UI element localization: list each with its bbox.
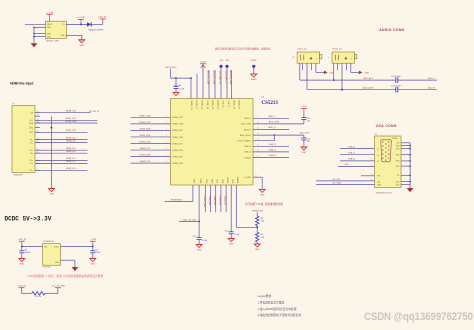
svg-text:SCL: SCL: [216, 180, 218, 184]
connector P1 HDMI-19P: [12, 103, 35, 176]
svg-text:AVDD_18: AVDD_18: [238, 101, 241, 109]
svg-text:VDD: VDD: [205, 179, 207, 184]
ground U3: [72, 267, 79, 271]
wire +5V from J1 to D1: [66, 20, 87, 26]
svg-text:16: 16: [257, 156, 259, 158]
svg-text:DVDD_C1: DVDD_C1: [195, 101, 197, 110]
wire audio right channel AUD_AOR: [307, 63, 396, 90]
svg-text:XTAL: XTAL: [199, 179, 202, 184]
svg-text:AVDD_18: AVDD_18: [232, 101, 235, 109]
svg-text:104: 104: [307, 141, 311, 143]
svg-text:HDMI_SDA: HDMI_SDA: [66, 120, 77, 123]
svg-text:HDMI_D1P: HDMI_D1P: [140, 148, 151, 150]
port +1V8 pin7: [225, 60, 230, 98]
svg-text:7: 7: [166, 155, 167, 157]
wire U2 bottom pin net VGA_VS: [224, 185, 227, 212]
net label HDMI_D1P wire to U2 pin: [131, 148, 171, 150]
svg-text:HDMI_CK-: HDMI_CK-: [66, 140, 76, 142]
svg-text:SOT23-3: SOT23-3: [43, 267, 52, 269]
svg-text:P2: P2: [293, 57, 295, 59]
svg-text:I2C_SDA: I2C_SDA: [332, 182, 341, 185]
svg-text:3: 3: [166, 129, 167, 131]
power flag +5_USB on J1 shield: [46, 13, 54, 22]
power flag +5V_OP_USB jumper: [51, 285, 65, 293]
svg-text:VOUT: VOUT: [54, 247, 60, 249]
power flag +5V0_IN: [98, 16, 107, 19]
svg-text:VGA_G: VGA_G: [268, 149, 276, 152]
wire U2 VGA_R net label: [253, 143, 289, 146]
svg-text:HDMI_SCL: HDMI_SCL: [66, 118, 77, 120]
svg-text:AUD_R: AUD_R: [428, 86, 436, 89]
wire U2 VGA_B net label: [253, 154, 289, 157]
svg-text:AUD_MCLK: AUD_MCLK: [240, 134, 252, 137]
svg-text:VGA_G: VGA_G: [244, 151, 251, 154]
svg-text:15: 15: [371, 179, 373, 181]
svg-text:HDMI line input: HDMI line input: [10, 82, 34, 86]
capacitor C8 100nF input: [19, 247, 31, 259]
svg-text:VGA_B: VGA_B: [244, 156, 251, 159]
svg-text:HDMI_CKP: HDMI_CKP: [173, 117, 184, 119]
svg-text:GND: GND: [47, 36, 52, 38]
svg-text:VGA_R: VGA_R: [244, 145, 251, 148]
svg-text:SENSE: SENSE: [236, 177, 238, 184]
svg-text:AUDIO CONN: AUDIO CONN: [379, 28, 404, 32]
svg-text:C24 100uF: C24 100uF: [391, 76, 402, 78]
svg-text:AGND: AGND: [251, 78, 257, 81]
net label HDMI_CK+: [36, 137, 88, 139]
wire power rail above U2: [171, 77, 192, 79]
wire U2 bottom pin net VGA_HS: [218, 185, 221, 212]
svg-text:5: 5: [351, 58, 352, 60]
wire D1 cathode to +5V0_IN: [91, 19, 103, 25]
resistor R4 75K: [256, 232, 265, 244]
net label HDMI_D0+: [36, 148, 88, 150]
svg-text:GND: GND: [80, 45, 85, 47]
label DAC_VDD: [300, 131, 310, 134]
ground arrow P2: [324, 71, 335, 75]
svg-text:GND: GND: [302, 152, 307, 154]
ground C20: [301, 147, 307, 154]
svg-text:HDMI_CK+: HDMI_CK+: [66, 137, 77, 139]
svg-text:V18_CAP_C6: V18_CAP_C6: [219, 71, 222, 85]
svg-text:GND: GND: [91, 264, 96, 266]
wire U3 VOUT to +3V3: [61, 246, 94, 248]
svg-text:HDMI_D2M: HDMI_D2M: [140, 155, 151, 157]
svg-text:+5_USB: +5_USB: [77, 17, 85, 19]
wire U2 pin12 to decoupling: [253, 133, 275, 136]
capacitor C9 22uF output: [90, 247, 101, 259]
svg-text:CS5213: CS5213: [262, 101, 279, 106]
capacitor C24 100uF audio L: [391, 76, 402, 83]
ground arrow P3: [359, 71, 370, 75]
svg-text:3.输出线控制阻抗,不要跨分割区走线.: 3.输出线控制阻抗,不要跨分割区走线.: [258, 313, 302, 317]
svg-text:C25 100uF: C25 100uF: [391, 85, 402, 87]
svg-text:OCLK_SEL: OCLK_SEL: [203, 196, 205, 208]
diode D1 SS8050/1N5819: [87, 22, 105, 31]
svg-text:HDMI_CKM: HDMI_CKM: [173, 124, 184, 126]
svg-text:V18_C7: V18_C7: [227, 101, 229, 108]
power flag VCAP pin3: [200, 61, 206, 99]
svg-text:HDMI_D2P: HDMI_D2P: [173, 156, 184, 158]
wire U2 bottom pin net USB_DM: [208, 185, 211, 212]
svg-text:CSDN @qq13699762750: CSDN @qq13699762750: [364, 311, 473, 323]
wire U2 top pin2: [196, 74, 198, 99]
svg-text:13: 13: [257, 139, 259, 141]
ground C22: [196, 245, 202, 252]
svg-text:AVDD_C4: AVDD_C4: [211, 101, 214, 110]
ground P_GND: [259, 189, 265, 196]
svg-text:22uF: 22uF: [96, 252, 101, 254]
net label HDMI_D0P wire to U2 pin: [131, 135, 171, 137]
svg-text:+5V0: +5V0: [344, 164, 350, 166]
svg-text:6: 6: [166, 148, 167, 150]
svg-text:HDMI_D2P: HDMI_D2P: [140, 161, 151, 163]
wire P2 to ground arrow: [316, 63, 324, 72]
power flag +5V0_IN at U3: [18, 239, 27, 246]
wire tie to C20: [274, 135, 304, 138]
svg-text:+5V0_IN: +5V0_IN: [91, 111, 99, 113]
wire P4 pin 12 stub: [361, 174, 375, 176]
svg-text:P1: P1: [13, 103, 15, 105]
capacitor C23 4.7uF: [225, 230, 240, 238]
ground at D1 circuit: [79, 40, 85, 47]
svg-text:VGA-HDB15-F-3.08: VGA-HDB15-F-3.08: [376, 192, 392, 195]
svg-text:15: 15: [37, 126, 39, 128]
wire U2 AUD_L net label: [253, 115, 289, 118]
wire U2 VGA_G net label: [253, 149, 289, 152]
connector P2 phone jack left: [293, 47, 322, 63]
svg-text:+3V3: +3V3: [301, 106, 307, 108]
svg-text:8: 8: [166, 161, 167, 163]
net label HDMI_D1M wire to U2 pin: [131, 142, 171, 144]
net label HDMI_D0M wire to U2 pin: [131, 128, 171, 130]
svg-text:=: =: [328, 57, 330, 59]
svg-text:RESERVED: RESERVED: [171, 200, 183, 202]
svg-text:18: 18: [37, 115, 39, 117]
svg-text:VGA_VS: VGA_VS: [224, 196, 227, 205]
svg-text:SENSE_FB: SENSE_FB: [252, 211, 263, 213]
svg-text:3: 3: [371, 159, 372, 161]
svg-text:AUD_R: AUD_R: [244, 128, 251, 131]
svg-text:C22: C22: [193, 236, 198, 238]
svg-text:12: 12: [257, 133, 259, 135]
svg-text:HDMI-19P: HDMI-19P: [14, 175, 24, 177]
svg-text:TODO_VSENC: TODO_VSENC: [237, 141, 251, 143]
svg-text:HDMI_D1-: HDMI_D1-: [66, 161, 76, 163]
wire U2 bottom pin net OCLK_SEL: [203, 185, 206, 212]
svg-text:AUD_AOR: AUD_AOR: [363, 86, 374, 89]
capacitor C16 0.1uF above U2: [174, 78, 185, 92]
svg-text:LDO选型要求: 1. 耐压、耐流; 2.注意封装散热功率满: LDO选型要求: 1. 耐压、耐流; 2.注意封装散热功率满足设计要求.: [28, 274, 105, 278]
wire U2 AUD_R net label: [253, 126, 289, 129]
wire I2C_SDA into P4: [316, 182, 375, 185]
svg-text:P4: P4: [375, 134, 377, 136]
svg-text:4.7uF: 4.7uF: [234, 234, 240, 236]
svg-text:R2 0R: R2 0R: [36, 296, 42, 298]
svg-text:GND: GND: [29, 127, 34, 129]
svg-text:USB_DP: USB_DP: [213, 196, 215, 205]
svg-text:11: 11: [257, 128, 259, 130]
wire P4 ground bus: [401, 143, 411, 188]
svg-text:+5V0_IN: +5V0_IN: [17, 285, 26, 287]
ground AGND tie: [251, 74, 257, 81]
power flag +5V0_IN jumper: [17, 285, 26, 293]
svg-text:HPD: HPD: [210, 179, 212, 184]
svg-text:AVDD_C5: AVDD_C5: [216, 101, 219, 110]
resistor R2 0R jumper: [22, 292, 58, 299]
svg-text:AVDD18_CAP: AVDD18_CAP: [229, 71, 232, 86]
svg-text:USB_DM: USB_DM: [208, 196, 210, 205]
svg-text:VGA CONN: VGA CONN: [376, 124, 397, 128]
net label HDMI_CKM wire to U2 pin: [131, 115, 171, 117]
port +1V8 pin6: [219, 60, 224, 98]
svg-text:VGA_B: VGA_B: [348, 158, 356, 161]
svg-text:HDB15: HDB15: [392, 138, 398, 140]
svg-text:0.1uF: 0.1uF: [202, 240, 208, 242]
wire HDMI pin stubs: [35, 111, 40, 171]
svg-text:U2: U2: [262, 97, 265, 99]
svg-text:AUD_GND: AUD_GND: [269, 121, 280, 124]
svg-text:HDMI_D0P: HDMI_D0P: [140, 135, 151, 137]
net label HDMI_D1+: [36, 158, 88, 160]
capacitor C25 100uF audio R: [391, 85, 402, 92]
svg-text:VGA_B: VGA_B: [269, 154, 277, 157]
svg-text:D1-: D1-: [30, 163, 33, 165]
wire U2 P_GND pin: [253, 175, 262, 189]
svg-text:V18_CAP_C7: V18_CAP_C7: [225, 71, 228, 85]
ground C8: [19, 259, 25, 266]
capacitor C20 104: [301, 138, 311, 147]
wire P3 sleeve stubs: [337, 63, 346, 70]
wire U2 XTAL pin: [198, 185, 200, 238]
svg-text:HDMI_D0M: HDMI_D0M: [173, 137, 184, 139]
svg-text:HDMI_D0-: HDMI_D0-: [66, 151, 76, 153]
port AGND tie: [251, 59, 257, 74]
svg-text:5V0: 5V0: [396, 143, 399, 145]
net label SENSE_FB: [252, 211, 263, 216]
svg-text:104: 104: [307, 121, 311, 123]
power flag +5V0 into P4: [338, 164, 375, 167]
svg-text:75K: 75K: [261, 221, 265, 223]
wire P2 sleeve stubs: [303, 63, 312, 70]
connector J1 MICRO_USB: [45, 21, 66, 42]
wire HDMI shield ground bus: [51, 116, 53, 188]
net label HDMI_D2P wire to U2 pin: [131, 161, 171, 163]
wire U2 top pin4 net AVDD33: [207, 70, 210, 99]
svg-text:AUD_L: AUD_L: [269, 115, 277, 118]
svg-text:XTAL_IN_24M: XTAL_IN_24M: [182, 218, 196, 221]
svg-text:2: 2: [166, 122, 167, 124]
wire U3 GND pin: [61, 260, 75, 267]
svg-text:2: 2: [371, 153, 372, 155]
wire U2 SENSE pin to divider: [236, 185, 257, 227]
svg-text:VDDIO_33: VDDIO_33: [190, 101, 192, 110]
svg-text:Phone out: Phone out: [298, 47, 308, 50]
connector P3 phone jack right: [328, 47, 357, 63]
svg-text:VCAP: VCAP: [200, 61, 206, 64]
svg-text:分压电阻7.5K段, 按需求调整比例: 分压电阻7.5K段, 按需求调整比例: [245, 202, 283, 206]
label U2 designator CS5213: [262, 97, 279, 106]
svg-text:HDMI_D0+: HDMI_D0+: [66, 148, 77, 150]
svg-text:HDMI_D1M: HDMI_D1M: [140, 142, 151, 144]
net label HDMI_SCL: [36, 118, 98, 120]
svg-text:HDMI_D2+: HDMI_D2+: [66, 168, 77, 170]
svg-text:SCL: SCL: [377, 181, 381, 183]
svg-text:GND: GND: [47, 27, 52, 29]
net label HDMI_SDA: [36, 120, 98, 123]
svg-text:5: 5: [166, 142, 167, 144]
capacitor C22 0.1uF at XTAL: [193, 236, 208, 245]
svg-text:AGND: AGND: [251, 59, 257, 62]
svg-text:MICRO_USB: MICRO_USB: [46, 41, 59, 43]
net label HDMI_CK-: [36, 140, 88, 142]
net label HDMI_5V0: [36, 110, 90, 112]
wire P3 to ground arrow: [351, 63, 359, 72]
svg-text:GND: GND: [49, 194, 54, 196]
power flag +3V3_D above U2: [165, 67, 177, 78]
svg-text:5: 5: [316, 58, 317, 60]
svg-text:22: 22: [255, 175, 257, 177]
wire U2 top pin1: [190, 78, 192, 98]
svg-text:AUD_L: AUD_L: [428, 77, 436, 80]
ground C16: [173, 93, 179, 96]
svg-text:GND: GND: [260, 195, 265, 197]
wire audio left channel AUD_AOL: [300, 63, 396, 81]
svg-text:+5V_OP_USB: +5V_OP_USB: [51, 285, 65, 287]
svg-text:Layout要求:: Layout要求:: [258, 294, 272, 298]
svg-text:GND: GND: [55, 262, 60, 264]
svg-text:GND: GND: [20, 264, 25, 266]
resistor R3 75K: [256, 216, 265, 232]
net label HDMI_D1-: [36, 161, 88, 163]
svg-text:GND: GND: [61, 35, 66, 37]
svg-text:VDD: VDD: [231, 179, 233, 184]
svg-text:R4: R4: [261, 234, 264, 236]
power flag +3V3 output: [90, 239, 97, 246]
wire VGA_G into P4: [340, 151, 375, 155]
svg-text:AUD_AOL: AUD_AOL: [363, 77, 374, 80]
net label HDMI_D2+: [36, 168, 88, 170]
ground divider: [254, 244, 260, 251]
wire to net label AUD_R: [398, 86, 437, 89]
svg-text:GND: GND: [229, 244, 234, 246]
svg-text:AVDD33_CAP: AVDD33_CAP: [213, 71, 216, 86]
wire I2C_SCL into P4: [316, 179, 375, 181]
svg-text:VCAP_18: VCAP_18: [206, 101, 209, 109]
svg-text:D0-: D0-: [30, 153, 33, 155]
wire U2 top pin5 net AVDD33: [213, 70, 216, 99]
svg-text:Phone out: Phone out: [332, 47, 342, 50]
svg-text:+5V0_IN: +5V0_IN: [98, 16, 107, 18]
wire U2 reserved pin net label: [165, 185, 193, 202]
svg-text:CK-: CK-: [30, 142, 34, 144]
svg-text:14: 14: [257, 144, 259, 146]
svg-text:AUD_GND: AUD_GND: [241, 123, 251, 126]
ground J1 shell: [31, 43, 38, 47]
svg-text:AVDD33_CAP: AVDD33_CAP: [207, 71, 210, 86]
svg-text:HDMI_D2M: HDMI_D2M: [173, 163, 184, 165]
svg-text:1: 1: [166, 116, 167, 118]
svg-text:GND: GND: [364, 72, 369, 74]
svg-text:GND: GND: [255, 249, 260, 251]
svg-text:12: 12: [371, 174, 373, 176]
svg-text:AUD_R: AUD_R: [268, 126, 276, 129]
svg-text:+3V3: +3V3: [91, 239, 97, 241]
net label HDMI_CEC: [36, 130, 88, 132]
power flag +5V0_IN at HDMI pin18: [90, 110, 100, 113]
svg-text:HDMI_CEC: HDMI_CEC: [66, 130, 77, 132]
svg-text:+1V8: +1V8: [219, 60, 223, 62]
svg-text:HDMI_D0M: HDMI_D0M: [140, 128, 151, 130]
svg-text:HDMI_D0P: HDMI_D0P: [173, 130, 184, 132]
wire J1 GND pin to ground: [66, 35, 82, 39]
svg-text:P_GND: P_GND: [244, 177, 251, 179]
svg-text:C16 104: C16 104: [174, 85, 182, 87]
wire VGA_B into P4: [340, 158, 375, 162]
svg-text:MODE: MODE: [226, 178, 228, 184]
svg-text:9: 9: [371, 165, 372, 167]
connector P4 VGA HDB15: [375, 134, 402, 195]
svg-text:+5V0_IN: +5V0_IN: [18, 239, 27, 241]
svg-text:SCL: SCL: [30, 120, 34, 122]
svg-text:100nF: 100nF: [25, 252, 31, 254]
svg-text:VGA_R: VGA_R: [348, 145, 356, 148]
svg-text:9: 9: [257, 116, 258, 118]
wire +5V0 to U3 VIN: [21, 246, 43, 248]
svg-text:2.输入HDMI线需等长且包地处理;: 2.输入HDMI线需等长且包地处理;: [258, 307, 298, 311]
svg-text:GND: GND: [47, 33, 52, 35]
svg-text:HDMI_CKM: HDMI_CKM: [139, 115, 150, 117]
svg-text:HDMI_5V0: HDMI_5V0: [66, 110, 77, 112]
net label HDMI_D2M wire to U2 pin: [131, 155, 171, 157]
svg-text:VBUS: VBUS: [47, 24, 53, 26]
wire to net label AUD_L: [398, 77, 437, 80]
junction dots J1 ground bus: [33, 27, 35, 38]
svg-text:1: 1: [371, 147, 372, 149]
wire U2 pin13 tie: [253, 135, 274, 141]
power flag +3V3 at C19: [301, 106, 307, 117]
svg-text:VGA_G: VGA_G: [348, 151, 356, 154]
svg-text:0.1uF: 0.1uF: [179, 88, 185, 90]
net label XTAL_IN_24M: [179, 218, 200, 222]
svg-text:15: 15: [257, 150, 259, 152]
svg-text:+1V8: +1V8: [225, 60, 229, 62]
net label HDMI_D0-: [36, 151, 88, 153]
wire U2 AUD_GND: [253, 121, 304, 124]
svg-text:R3: R3: [261, 218, 264, 220]
wire U2 AVDD pin to C23: [230, 185, 232, 232]
svg-text:CEC: CEC: [29, 132, 34, 134]
svg-text:10: 10: [257, 122, 259, 124]
wire U2 top pin8 net AVDD18: [229, 70, 232, 99]
svg-text:4: 4: [166, 135, 167, 137]
regulator U3 SE8533: [43, 241, 61, 268]
svg-text:C23: C23: [225, 230, 230, 232]
wire J1 left pins: [25, 24, 45, 43]
op-amp U2 CS5213 converter IC: [171, 99, 254, 186]
ground C23: [228, 239, 234, 246]
wire VGA_R into P4: [340, 145, 375, 149]
svg-text:GND: GND: [197, 250, 202, 252]
svg-text:VGA_HS: VGA_HS: [218, 196, 221, 205]
svg-text:VGA_R: VGA_R: [268, 143, 276, 146]
ground C9: [90, 259, 96, 266]
svg-text:SS8050 1N5819: SS8050 1N5819: [88, 29, 104, 31]
svg-text:I2C_SCL: I2C_SCL: [332, 179, 341, 181]
svg-text:V18_C6: V18_C6: [222, 101, 224, 108]
ground P4 bus: [407, 188, 414, 192]
net label HDMI_CKP wire to U2 pin: [131, 122, 171, 124]
